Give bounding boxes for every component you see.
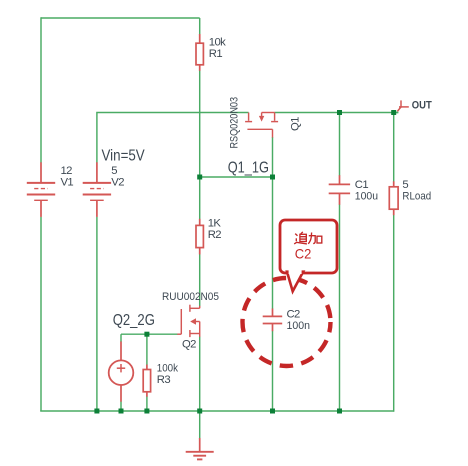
- svg-text:V1: V1: [61, 177, 74, 189]
- transistor Q1: [245, 113, 278, 138]
- svg-text:Q2: Q2: [182, 339, 196, 351]
- battery V1: [27, 162, 55, 217]
- wire R2 to Q2 drain: [199, 254, 201, 306]
- port OUT: [394, 100, 409, 112]
- svg-text:100u: 100u: [355, 191, 378, 203]
- wire Q1 gate down to node: [272, 137, 274, 177]
- node R3 top junction: [144, 332, 149, 337]
- wire C1 top: [339, 113, 341, 176]
- resistor R2: [196, 219, 203, 255]
- wire bottom rail: [40, 410, 394, 412]
- resistor R3: [143, 365, 150, 397]
- svg-text:C2: C2: [287, 308, 301, 320]
- svg-text:1K: 1K: [208, 218, 222, 230]
- wire node to R2: [199, 177, 201, 219]
- svg-text:R1: R1: [209, 48, 223, 60]
- wire R3 bottom: [146, 396, 148, 411]
- node C2 bottom junction: [270, 409, 275, 414]
- annotation text 追加 (glyph strokes): [294, 232, 322, 244]
- svg-text:RSQ020N03: RSQ020N03: [228, 97, 240, 148]
- annotation dashed circle around C2: [243, 278, 331, 366]
- resistor R1: [196, 34, 203, 71]
- wire C2 bottom to rail: [272, 331, 274, 411]
- wire gate node down to C2: [272, 177, 274, 309]
- svg-text:10k: 10k: [209, 37, 226, 49]
- svg-text:Vin=5V: Vin=5V: [102, 147, 145, 164]
- svg-text:100k: 100k: [157, 363, 179, 375]
- node ground junction: [197, 409, 202, 414]
- battery V2: [83, 162, 111, 217]
- node Q1_1G right junction: [270, 175, 275, 180]
- wire V3 source bottom: [120, 402, 122, 412]
- wire V2 bottom to ground rail: [96, 217, 98, 411]
- node R3 bottom junction: [144, 409, 149, 414]
- svg-text:R3: R3: [157, 374, 171, 386]
- node Q1_1G left junction: [197, 175, 202, 180]
- svg-text:Q1: Q1: [290, 117, 302, 131]
- svg-text:V2: V2: [111, 177, 124, 189]
- node OUT junction: [391, 110, 396, 115]
- wire top rail: [41, 17, 200, 19]
- wire node Q1_1G horizontal: [200, 176, 273, 178]
- wire R3 top: [146, 334, 148, 365]
- annotation callout bubble: [280, 220, 337, 291]
- wire V2 top to main net: [97, 113, 249, 163]
- capacitor C1: [329, 175, 350, 205]
- node C1 top junction: [337, 110, 342, 115]
- wire RLoad top: [393, 113, 395, 182]
- svg-text:C2: C2: [295, 246, 312, 262]
- wire left rail upper: [40, 17, 42, 162]
- wire Q2 source to rail: [199, 337, 201, 412]
- ground: [186, 438, 214, 459]
- svg-text:RUU002N05: RUU002N05: [162, 291, 219, 303]
- svg-text:5: 5: [111, 165, 117, 177]
- capacitor C2: [263, 309, 283, 332]
- svg-text:Q1_1G: Q1_1G: [228, 160, 269, 177]
- svg-text:R2: R2: [208, 229, 222, 241]
- svg-text:RLoad: RLoad: [402, 191, 431, 203]
- node V3 bottom junction: [119, 409, 124, 414]
- wire C1 bottom to rail: [339, 204, 341, 411]
- wire left rail lower: [40, 217, 42, 411]
- wire Q1 drain to OUT: [275, 112, 399, 114]
- wire V3 source top: [120, 334, 122, 342]
- wire RLoad bottom to rail corner: [393, 215, 395, 412]
- svg-text:12: 12: [61, 165, 73, 177]
- svg-text:5: 5: [402, 179, 408, 191]
- wire R1 top: [199, 18, 201, 35]
- voltage source V3: [109, 342, 134, 402]
- wire R1 bottom to node Q1_1G: [199, 71, 201, 178]
- wire Q2_2G horizontal: [121, 333, 178, 335]
- svg-text:C1: C1: [355, 179, 369, 191]
- svg-text:OUT: OUT: [412, 99, 432, 111]
- svg-text:100n: 100n: [287, 320, 311, 332]
- resistor RLoad: [389, 181, 398, 215]
- transistor Q2: [177, 305, 199, 337]
- svg-text:Q2_2G: Q2_2G: [113, 312, 155, 329]
- node C1 bottom junction: [337, 409, 342, 414]
- node V2 bottom junction: [94, 409, 99, 414]
- wire ground stem: [199, 411, 201, 439]
